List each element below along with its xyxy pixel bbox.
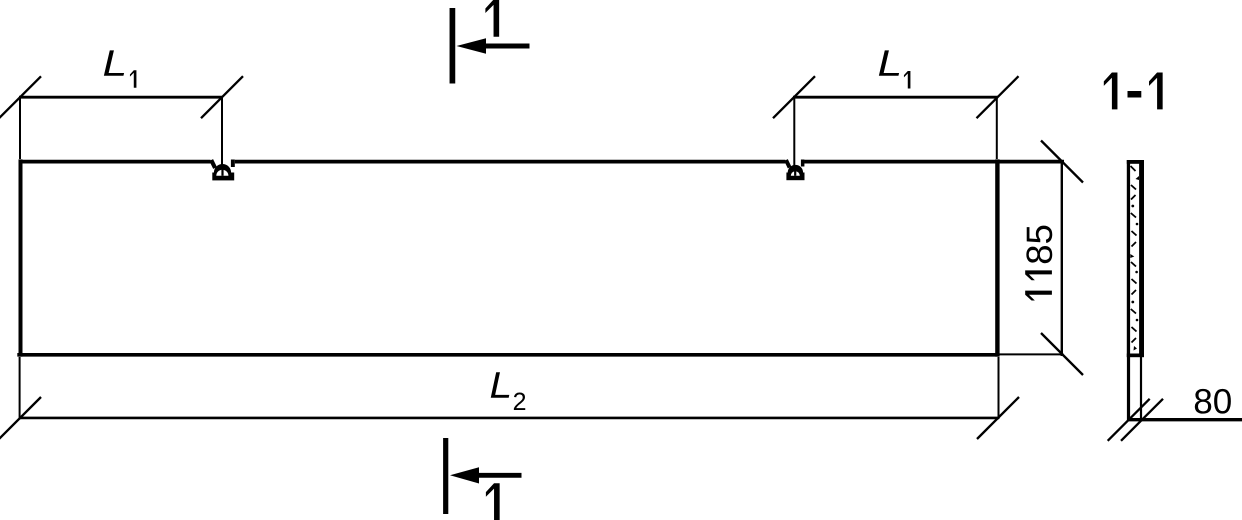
lifting loop notch right (786, 160, 805, 181)
panel left edge (19, 159, 23, 356)
section cut arrow top (457, 38, 530, 53)
dimension line 1185 (vertical) (1061, 162, 1063, 356)
tick L2 left end (0, 397, 41, 439)
label 80 (1195, 389, 1231, 414)
panel bottom edge extension (thin) (999, 353, 1064, 355)
section 1-1 lower extension (1129, 357, 1142, 421)
section cut arrow bottom (450, 467, 522, 483)
section view heading 1-1 (1104, 73, 1163, 110)
label L1 right (879, 50, 911, 88)
tick L2 right end (977, 397, 1019, 439)
panel right edge (995, 159, 999, 356)
label L2 (491, 372, 525, 410)
tick L1-left left end (0, 76, 41, 118)
label 1185 (rotated) (1025, 226, 1052, 301)
extension line L2 left (19, 357, 21, 419)
tick 80 left (1108, 399, 1150, 441)
lifting loop notch left (211, 160, 235, 181)
section cut label 1 bottom (486, 483, 500, 520)
section cut label 1 top (485, 0, 499, 37)
tick L1-right left end (773, 76, 815, 118)
tick 1185 bottom (1041, 333, 1083, 375)
extension line L2 right (998, 357, 1000, 419)
section cut line top (450, 8, 456, 84)
tick 80 right (1121, 399, 1163, 441)
section 1-1 panel bar outline (1127, 160, 1144, 357)
dimension line 80 (1127, 418, 1242, 421)
tick L1-left right end (201, 76, 243, 118)
dimension line L2 (19, 417, 999, 420)
extension line L1-left right end (221, 97, 223, 167)
extension line L1-left at x=20 (19, 97, 21, 159)
extension line L1-right left end (793, 97, 795, 166)
tick 1185 top (1041, 141, 1083, 183)
section cut line bottom (443, 438, 448, 514)
tick L1-right right end (977, 76, 1019, 118)
section 1-1 concrete speckles (1130, 166, 1139, 351)
label L1 left (104, 50, 137, 87)
dimension line L1 right (793, 96, 998, 99)
panel top edge (19, 160, 1065, 164)
dimension line L1 left (19, 96, 223, 99)
extension line L1-right right end (996, 97, 998, 159)
panel bottom edge (17, 353, 999, 357)
